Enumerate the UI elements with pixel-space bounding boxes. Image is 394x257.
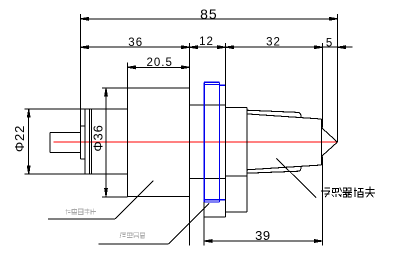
phi22 disc section (85, 109, 127, 174)
text compression nut label small gray hanzi (120, 232, 145, 238)
leader compression nut label (98, 243, 168, 245)
text sensor body label small gray hanzi (66, 209, 97, 215)
extension line nut left x204.2 down (203, 202, 205, 245)
dimension chain 36 12 32 5 line (80, 46, 337, 48)
probe end face (321, 119, 323, 165)
probe tube inner top (247, 114, 322, 119)
lower bracket box R2 (225, 176, 246, 212)
dimension phi36 (105, 88, 107, 197)
text sensor probe label hanzi (321, 187, 375, 198)
lower bracket box R1 under nut (204, 179, 225, 218)
svg-text:85: 85 (200, 6, 218, 22)
section C collar (226, 108, 247, 177)
extension line x321.4 (321, 43, 323, 128)
wire: red centerline (54, 141, 338, 143)
extension line x189.4 top (188, 43, 190, 88)
dimension phi22 (28, 109, 30, 174)
compression nut blue (204, 82, 225, 202)
neck 12mm section (189, 105, 225, 178)
extension line right tip x337.4 (336, 14, 338, 142)
svg-text:39: 39 (255, 228, 270, 243)
svg-text:32: 32 (266, 37, 281, 49)
svg-text:36: 36 (128, 37, 143, 49)
dimension 20.5 line (127, 66, 189, 68)
dimension texts 36 12 32 5 20.5 (128, 36, 333, 69)
extension line 20.5 left x127.4 (126, 63, 128, 89)
svg-text:12: 12 (199, 36, 214, 48)
phi36 flange body (127, 88, 189, 197)
leader sensor body label (48, 218, 115, 220)
neck between stub and disc (80, 126, 85, 159)
svg-text:Φ36: Φ36 (90, 124, 105, 151)
dimension 85 line (80, 18, 337, 20)
svg-text:5: 5 (326, 37, 333, 49)
probe tube outer bottom (247, 167, 301, 174)
leader sensor probe label (276, 158, 316, 197)
extension line left at x80.4 (79, 14, 81, 159)
probe cone tip (321, 128, 337, 157)
dimension 39 text (255, 228, 270, 243)
dimension 39 line (204, 240, 322, 242)
svg-text:Φ22: Φ22 (12, 125, 27, 152)
dimension 85 text (200, 6, 218, 22)
extension line x189.4 bottom tail (188, 197, 190, 246)
svg-text:20.5: 20.5 (147, 57, 173, 69)
stub shaft left cylinder (50, 132, 80, 152)
probe tube inner bottom (247, 165, 322, 170)
extension line x225.7 (225, 43, 227, 105)
probe tube outer top (247, 110, 301, 117)
